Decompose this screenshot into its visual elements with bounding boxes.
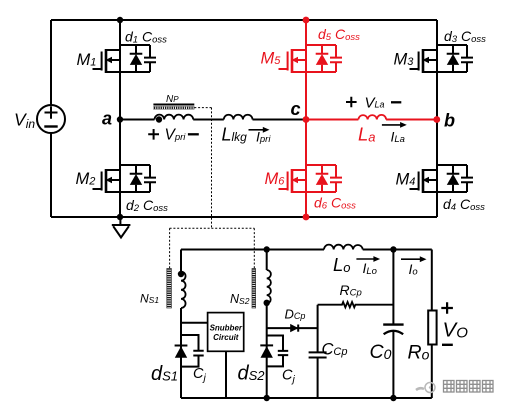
svg-text:La: La xyxy=(358,124,376,145)
label + Vpri - xyxy=(148,129,159,140)
transformer primary winding Np xyxy=(155,115,194,120)
wire NS2 to dS2 to bottom rail xyxy=(266,304,268,399)
resistor Ro box xyxy=(428,311,436,345)
wire snubber box to bottom rail xyxy=(225,351,227,398)
node b (red) xyxy=(433,116,440,123)
wire middle leg M5/M6 (red) xyxy=(305,20,307,217)
svg-text:d3 Coss: d3 Coss xyxy=(444,28,486,45)
polarity dot NS2 xyxy=(264,300,270,306)
junction dot bottom rail / M2 leg xyxy=(117,214,123,220)
current arrow Ipri xyxy=(249,127,270,133)
svg-text:DCp: DCp xyxy=(285,307,306,322)
secondary winding NS2 xyxy=(267,270,271,304)
wire NS1 to dS1 xyxy=(180,308,182,398)
capacitor Cj (right) xyxy=(267,336,289,367)
wire Np to Llkg xyxy=(193,119,224,121)
core bar NS2 xyxy=(252,269,256,309)
inductor La (red) xyxy=(358,115,386,120)
dashed core link horizontal xyxy=(170,227,255,229)
inductor Lo xyxy=(324,245,363,250)
wire Llkg to node c xyxy=(253,119,307,121)
svg-text:Vpri: Vpri xyxy=(165,126,187,143)
svg-text:d2 Coss: d2 Coss xyxy=(126,197,168,214)
junction dot Co/bottom rail xyxy=(390,395,396,401)
svg-text:NP: NP xyxy=(166,94,179,105)
capacitor Co branch xyxy=(383,250,403,399)
dashed core link to NS1 xyxy=(169,228,171,268)
wire to snubber box xyxy=(181,322,208,324)
transistor M6 (red) xyxy=(279,165,343,193)
transistor M4 xyxy=(410,165,474,193)
junction dot Lo/Co xyxy=(390,246,396,252)
transistor M3 xyxy=(410,45,474,73)
svg-text:C0: C0 xyxy=(370,341,392,363)
svg-text:NS2: NS2 xyxy=(230,292,250,306)
wire La to node b (red) xyxy=(386,119,437,121)
watermark logo xyxy=(416,383,435,393)
svg-text:CCp: CCp xyxy=(322,340,348,358)
dashed core link primary xyxy=(194,108,211,229)
current arrow Io xyxy=(401,256,427,262)
snubber circuit box xyxy=(208,313,244,352)
transistor M1 xyxy=(93,45,157,73)
diode DCp xyxy=(290,324,298,332)
svg-text:Ro: Ro xyxy=(408,342,430,364)
wire node c to La (red) xyxy=(306,119,358,121)
wire Lo to corner xyxy=(363,249,432,251)
svg-text:Llkg: Llkg xyxy=(222,125,248,145)
wire top rail xyxy=(51,19,437,21)
wire output right rail xyxy=(431,250,433,399)
svg-text:RCp: RCp xyxy=(340,282,362,299)
current arrow ILa xyxy=(382,122,407,128)
resistor RCp xyxy=(318,302,394,307)
svg-text:NS1: NS1 xyxy=(140,291,159,305)
capacitor CCp branch xyxy=(309,305,327,398)
svg-text:M1: M1 xyxy=(77,51,97,69)
svg-text:ILa: ILa xyxy=(391,129,405,146)
wire NS1 top xyxy=(180,250,182,272)
core bar NS1 xyxy=(167,269,172,309)
svg-text:d1 Coss: d1 Coss xyxy=(125,29,167,46)
svg-text:c: c xyxy=(291,99,301,119)
transformer core bar (hatched) xyxy=(153,107,194,110)
svg-text:Vin: Vin xyxy=(14,109,35,131)
wire NS2 top xyxy=(266,250,268,271)
ground xyxy=(112,217,131,238)
svg-text:ILo: ILo xyxy=(363,260,377,277)
dashed core link to NS2 xyxy=(253,228,255,268)
label + Vo - xyxy=(441,302,453,314)
svg-text:Cj: Cj xyxy=(193,366,206,384)
polarity dot Np xyxy=(156,116,162,122)
svg-text:Io: Io xyxy=(409,261,418,278)
diode dS2 xyxy=(260,345,273,357)
wire left rail upper xyxy=(50,20,52,105)
junction dot top rail / M5 leg (red) xyxy=(303,17,310,24)
wire bottom rail xyxy=(51,216,437,218)
secondary winding NS1 xyxy=(181,272,186,308)
svg-text:Lo: Lo xyxy=(333,254,351,275)
transistor M5 (red) xyxy=(279,45,343,73)
wire secondary bottom rail xyxy=(181,397,432,399)
svg-text:b: b xyxy=(444,111,455,131)
svg-text:Cj: Cj xyxy=(282,368,295,386)
wire secondary top rail xyxy=(181,249,324,251)
wire node a to Np xyxy=(120,119,155,121)
node a xyxy=(117,116,123,122)
svg-text:M5: M5 xyxy=(261,50,282,68)
wire left rail lower xyxy=(50,133,52,217)
polarity dot NS1 xyxy=(178,271,184,277)
transistor M2 xyxy=(93,165,157,193)
svg-text:M2: M2 xyxy=(76,170,96,188)
svg-text:Snubber: Snubber xyxy=(210,324,243,333)
svg-text:d6 Coss: d6 Coss xyxy=(314,195,356,212)
svg-text:M6: M6 xyxy=(265,170,286,188)
wire left leg M1/M2 xyxy=(119,20,121,217)
svg-text:VO: VO xyxy=(443,319,469,342)
junction dot bottom rail / M6 leg (red) xyxy=(303,214,310,221)
svg-text:a: a xyxy=(102,109,112,129)
svg-text:d5 Coss: d5 Coss xyxy=(318,26,360,43)
voltage source Vin xyxy=(37,105,65,133)
junction dot NS2 top xyxy=(264,246,270,252)
watermark text xyxy=(444,381,494,393)
diode dS1 xyxy=(175,346,188,358)
label + VLa - xyxy=(346,97,357,108)
svg-text:Circuit: Circuit xyxy=(213,333,239,342)
svg-text:d4 Coss: d4 Coss xyxy=(443,196,485,213)
transformer core bar (solid) xyxy=(153,104,194,106)
capacitor Cj (left) xyxy=(181,335,204,367)
svg-text:VLa: VLa xyxy=(365,94,385,111)
node c xyxy=(303,116,310,123)
svg-text:M4: M4 xyxy=(396,171,416,189)
inductor Llkg xyxy=(224,115,253,120)
wire right leg xyxy=(436,20,438,217)
junction dot dS2/bottom rail xyxy=(264,395,270,401)
svg-text:dS2: dS2 xyxy=(238,363,266,385)
svg-text:dS1: dS1 xyxy=(151,363,178,385)
current arrow ILo xyxy=(356,256,380,262)
junction dot top rail / M1 leg xyxy=(117,17,123,23)
wire DCp branch xyxy=(267,327,318,329)
svg-text:M3: M3 xyxy=(394,51,415,69)
